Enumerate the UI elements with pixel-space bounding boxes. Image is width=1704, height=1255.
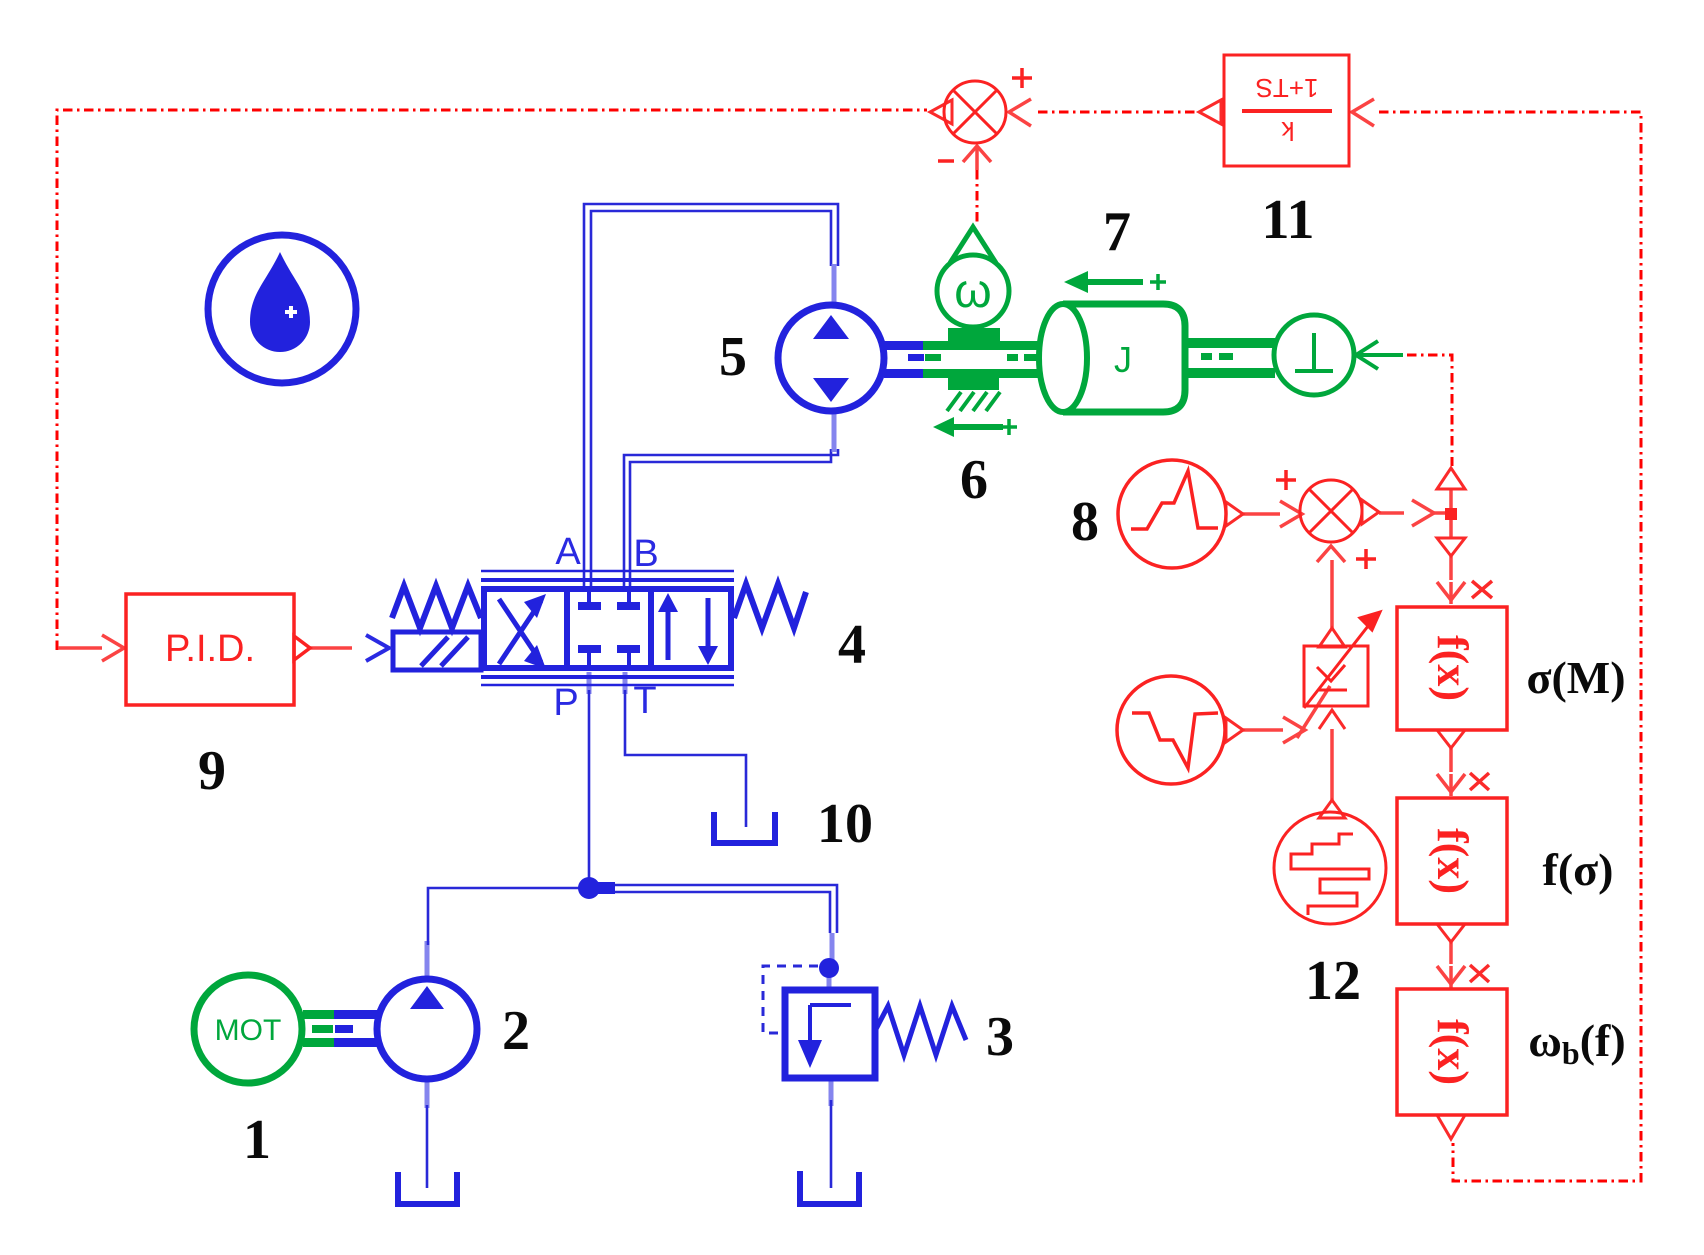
svg-text:12: 12 (1305, 950, 1361, 1012)
svg-text:6: 6 (960, 449, 988, 511)
svg-text:f(x): f(x) (1428, 828, 1477, 894)
svg-text:1: 1 (243, 1109, 271, 1171)
svg-text:J: J (1114, 339, 1132, 380)
svg-text:f(x): f(x) (1428, 635, 1477, 701)
svg-text:7: 7 (1103, 201, 1131, 263)
svg-text:B: B (633, 533, 658, 575)
svg-text:5: 5 (719, 326, 747, 388)
svg-text:11: 11 (1262, 189, 1315, 251)
svg-text:A: A (555, 531, 581, 573)
svg-text:1+TS: 1+TS (1256, 73, 1319, 103)
svg-text:MOT: MOT (215, 1014, 282, 1047)
svg-text:3: 3 (986, 1006, 1014, 1068)
svg-text:9: 9 (198, 740, 226, 802)
svg-text:k: k (1281, 116, 1295, 146)
svg-text:σ(M): σ(M) (1526, 652, 1625, 703)
svg-text:f(σ): f(σ) (1543, 844, 1614, 895)
svg-text:P: P (553, 682, 578, 724)
svg-text:f(x): f(x) (1428, 1019, 1477, 1085)
svg-text:T: T (633, 680, 656, 722)
svg-text:2: 2 (502, 1000, 530, 1062)
svg-text:P.I.D.: P.I.D. (165, 628, 255, 670)
svg-text:ω: ω (954, 265, 991, 318)
svg-text:4: 4 (838, 614, 866, 676)
svg-text:10: 10 (817, 793, 873, 855)
svg-text:8: 8 (1071, 491, 1099, 553)
